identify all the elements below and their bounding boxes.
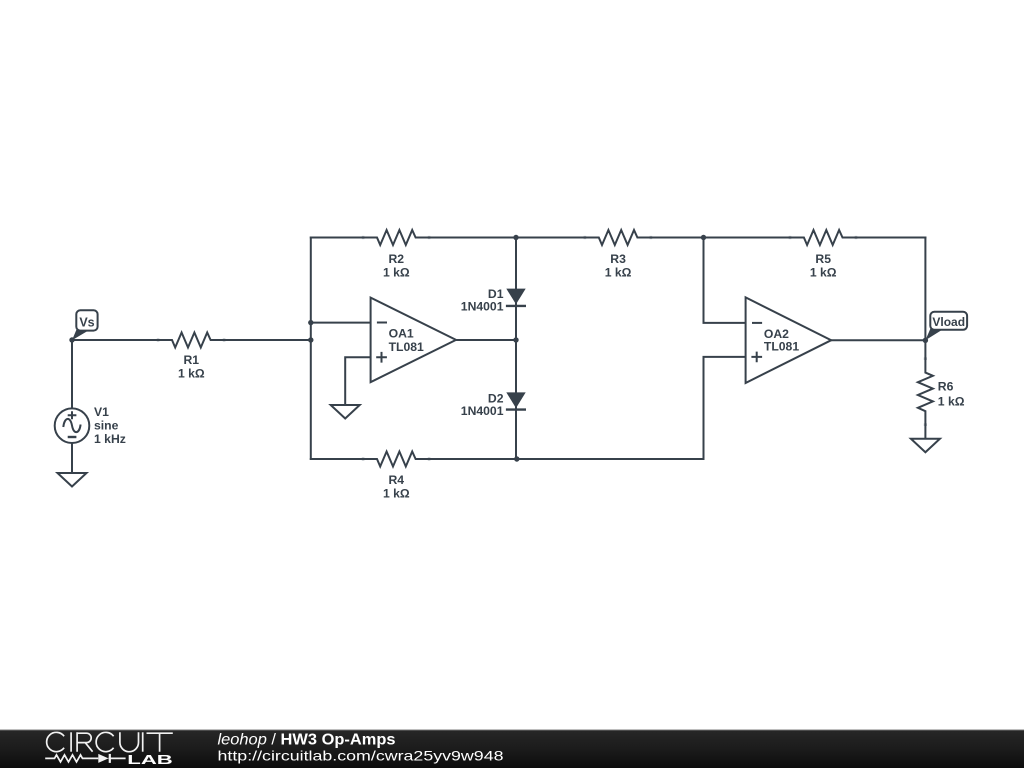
svg-text:Vs: Vs: [79, 315, 94, 329]
svg-text:1 kΩ: 1 kΩ: [810, 266, 837, 280]
svg-text:Vload: Vload: [932, 315, 965, 329]
svg-text:1 kΩ: 1 kΩ: [605, 266, 632, 280]
svg-text:1 kHz: 1 kHz: [94, 432, 126, 446]
svg-text:1N4001: 1N4001: [461, 404, 504, 418]
svg-text:1N4001: 1N4001: [461, 300, 504, 314]
svg-text:TL081: TL081: [389, 340, 424, 354]
svg-text:leohop / HW3 Op-Amps: leohop / HW3 Op-Amps: [218, 732, 396, 749]
svg-text:V1: V1: [94, 405, 109, 419]
svg-text:OA1: OA1: [389, 327, 414, 341]
svg-text:R6: R6: [938, 380, 954, 394]
svg-text:1 kΩ: 1 kΩ: [383, 487, 410, 501]
svg-text:R5: R5: [815, 252, 831, 266]
svg-text:R2: R2: [389, 252, 405, 266]
svg-text:R4: R4: [389, 473, 405, 487]
svg-text:R3: R3: [610, 252, 626, 266]
svg-text:1 kΩ: 1 kΩ: [938, 394, 965, 408]
svg-text:TL081: TL081: [764, 340, 799, 354]
svg-text:sine: sine: [94, 419, 119, 433]
svg-text:1 kΩ: 1 kΩ: [178, 367, 205, 381]
svg-text:1 kΩ: 1 kΩ: [383, 266, 410, 280]
svg-text:http://circuitlab.com/cwra25yv: http://circuitlab.com/cwra25yv9w948: [218, 748, 504, 764]
svg-text:R1: R1: [184, 353, 200, 367]
svg-text:LAB: LAB: [127, 752, 173, 767]
